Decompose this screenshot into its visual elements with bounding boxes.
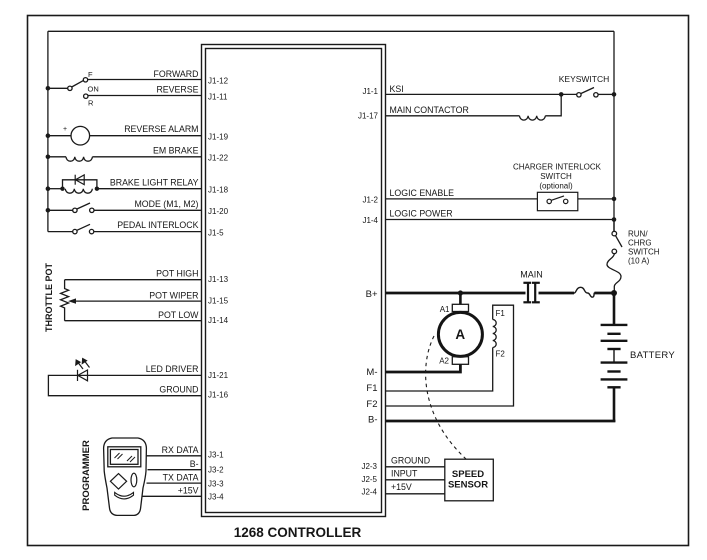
node KSI-contactor junction	[559, 92, 564, 97]
svg-text:RX DATA: RX DATA	[162, 445, 199, 455]
controller U1 1268 box	[202, 45, 386, 517]
svg-text:PEDAL INTERLOCK: PEDAL INTERLOCK	[117, 220, 198, 230]
wire logic power	[386, 219, 615, 221]
svg-text:CHARGER INTERLOCK: CHARGER INTERLOCK	[513, 163, 602, 172]
wire B- heavy	[386, 420, 616, 423]
node relay left junction	[60, 187, 64, 191]
coil L2 main contactor	[386, 94, 562, 120]
node bus-mode junction	[46, 208, 51, 213]
svg-text:SWITCH: SWITCH	[628, 248, 660, 257]
svg-text:SWITCH: SWITCH	[540, 172, 572, 181]
fuse F3 charge fuse squiggle	[607, 254, 621, 293]
svg-text:J1-15: J1-15	[208, 297, 229, 306]
programmer P1 handset body	[104, 438, 147, 515]
contactor MAIN tips	[523, 283, 539, 303]
wire right bus upper	[613, 31, 615, 231]
svg-text:FORWARD: FORWARD	[154, 69, 199, 79]
node bus-FR junction	[46, 86, 51, 91]
svg-text:A1: A1	[440, 305, 450, 314]
svg-text:REVERSE: REVERSE	[156, 85, 198, 95]
node B+ motor junction	[458, 290, 463, 295]
wire reverse	[88, 95, 202, 97]
diode D1 relay suppression	[75, 175, 84, 185]
svg-text:J1-2: J1-2	[362, 196, 378, 205]
svg-text:B-: B-	[368, 415, 378, 426]
svg-text:J1-1: J1-1	[362, 87, 378, 96]
programmer wires	[143, 456, 202, 497]
wire left bus	[47, 31, 49, 231]
programmer screen hatches	[115, 453, 136, 462]
fuse F4 main fuse squiggle	[574, 287, 595, 297]
programmer smile arc	[115, 492, 134, 499]
svg-text:J2-4: J2-4	[361, 488, 377, 497]
switch S6 run-chrg	[612, 220, 622, 254]
wire speed sensor input	[386, 479, 445, 481]
node bus-alarm junction	[46, 133, 51, 138]
svg-text:MAIN: MAIN	[520, 270, 543, 280]
wire speed sensor +15V	[386, 493, 445, 495]
coil L1 EM brake	[48, 157, 202, 161]
svg-text:J1-11: J1-11	[208, 92, 228, 101]
wire LED driver loop	[48, 375, 201, 395]
node B+ battery junction	[611, 290, 617, 296]
svg-text:F: F	[88, 70, 93, 79]
node bus-embrake junction	[46, 155, 51, 160]
svg-text:J1-14: J1-14	[208, 316, 229, 325]
LED D2	[76, 359, 90, 381]
svg-text:LOGIC POWER: LOGIC POWER	[390, 209, 453, 219]
svg-text:J1-4: J1-4	[362, 216, 378, 225]
svg-text:INPUT: INPUT	[391, 469, 418, 479]
svg-text:J1-5: J1-5	[208, 228, 224, 237]
relay K1 brake light relay	[48, 180, 202, 193]
svg-text:F1: F1	[366, 383, 377, 394]
svg-text:A2: A2	[439, 356, 449, 365]
switch S4 keyswitch	[577, 88, 614, 98]
wire M- heavy	[386, 364, 461, 372]
node bus-relay junction	[46, 186, 51, 191]
svg-text:B+: B+	[366, 289, 378, 300]
wire top bus	[48, 30, 614, 32]
svg-text:F2: F2	[496, 350, 506, 359]
svg-text:J1-12: J1-12	[208, 77, 229, 86]
svg-text:MODE (M1, M2): MODE (M1, M2)	[134, 199, 198, 209]
wire B+ heavy	[386, 292, 615, 295]
svg-text:J1-16: J1-16	[208, 391, 229, 400]
wire F2	[386, 305, 514, 406]
svg-text:J1-17: J1-17	[358, 112, 379, 121]
horn H1 reverse alarm	[48, 126, 202, 145]
svg-text:F1: F1	[496, 309, 506, 318]
programmer oval button	[131, 473, 137, 487]
switch S1 forward/reverse	[48, 78, 88, 99]
svg-text:TX DATA: TX DATA	[163, 473, 199, 483]
svg-text:GROUND: GROUND	[391, 455, 430, 465]
svg-text:J3-4: J3-4	[208, 493, 224, 502]
svg-text:EM BRAKE: EM BRAKE	[153, 146, 199, 156]
svg-text:(10 A): (10 A)	[628, 257, 650, 266]
svg-text:POT HIGH: POT HIGH	[156, 269, 198, 279]
switch S2 mode	[48, 203, 202, 213]
svg-text:M-: M-	[366, 367, 377, 378]
node relay right junction	[95, 187, 99, 191]
battery BT1	[601, 293, 628, 422]
node logic power junction	[612, 217, 617, 222]
svg-text:J2-5: J2-5	[361, 475, 377, 484]
svg-text:LED DRIVER: LED DRIVER	[146, 364, 199, 374]
svg-text:R: R	[88, 99, 94, 108]
wire F1	[386, 348, 493, 392]
svg-text:(optional): (optional)	[539, 182, 573, 191]
svg-text:POT LOW: POT LOW	[158, 310, 199, 320]
svg-text:+15V: +15V	[178, 486, 199, 496]
svg-text:B-: B-	[190, 459, 199, 469]
svg-text:J3-3: J3-3	[208, 480, 224, 489]
svg-text:A: A	[455, 327, 465, 342]
node logic enable junction	[612, 197, 617, 202]
svg-text:ON: ON	[88, 85, 99, 94]
svg-text:RUN/: RUN/	[628, 230, 648, 239]
svg-text:F2: F2	[366, 399, 377, 410]
svg-text:J2-3: J2-3	[361, 462, 377, 471]
svg-text:SENSOR: SENSOR	[448, 480, 488, 491]
svg-text:J3-2: J3-2	[208, 466, 224, 475]
svg-text:J1-19: J1-19	[208, 133, 229, 142]
node keyswitch-rail junction	[612, 92, 617, 97]
svg-text:J3-1: J3-1	[208, 451, 224, 460]
svg-text:J1-18: J1-18	[208, 186, 229, 195]
svg-text:+: +	[63, 126, 67, 133]
wire forward	[88, 79, 202, 81]
svg-text:BRAKE LIGHT RELAY: BRAKE LIGHT RELAY	[110, 178, 199, 188]
svg-text:GROUND: GROUND	[159, 385, 198, 395]
wire dashed sensor link	[426, 336, 466, 459]
svg-text:+15V: +15V	[391, 482, 412, 492]
svg-text:CHRG: CHRG	[628, 239, 652, 248]
svg-text:POT WIPER: POT WIPER	[149, 291, 198, 301]
svg-text:PROGRAMMER: PROGRAMMER	[81, 440, 92, 511]
motor M1 armature	[438, 293, 482, 364]
svg-text:J1-22: J1-22	[208, 154, 229, 163]
wire speed sensor ground	[386, 466, 445, 468]
svg-text:J1-20: J1-20	[208, 207, 229, 216]
programmer diamond button	[110, 474, 126, 489]
svg-text:KSI: KSI	[390, 84, 404, 94]
sensor U2 speed sensor box	[445, 459, 494, 501]
coil L3 field winding	[493, 320, 497, 348]
svg-text:1268 CONTROLLER: 1268 CONTROLLER	[234, 525, 362, 540]
switch S5 charger interlock box	[537, 192, 577, 210]
svg-text:REVERSE ALARM: REVERSE ALARM	[124, 124, 198, 134]
wiper arrowhead	[68, 298, 76, 303]
svg-text:BATTERY: BATTERY	[630, 350, 675, 361]
svg-text:MAIN CONTACTOR: MAIN CONTACTOR	[390, 105, 469, 115]
svg-text:J1-13: J1-13	[208, 275, 229, 284]
svg-text:THROTTLE POT: THROTTLE POT	[44, 263, 54, 332]
wire logic enable	[386, 198, 615, 200]
potentiometer R1 throttle pot	[61, 280, 202, 321]
svg-text:SPEED: SPEED	[452, 469, 484, 480]
svg-text:J1-21: J1-21	[208, 371, 229, 380]
wire KSI	[386, 93, 577, 95]
switch S3 pedal interlock	[48, 224, 202, 234]
svg-text:LOGIC ENABLE: LOGIC ENABLE	[390, 188, 455, 198]
svg-text:KEYSWITCH: KEYSWITCH	[559, 74, 610, 84]
